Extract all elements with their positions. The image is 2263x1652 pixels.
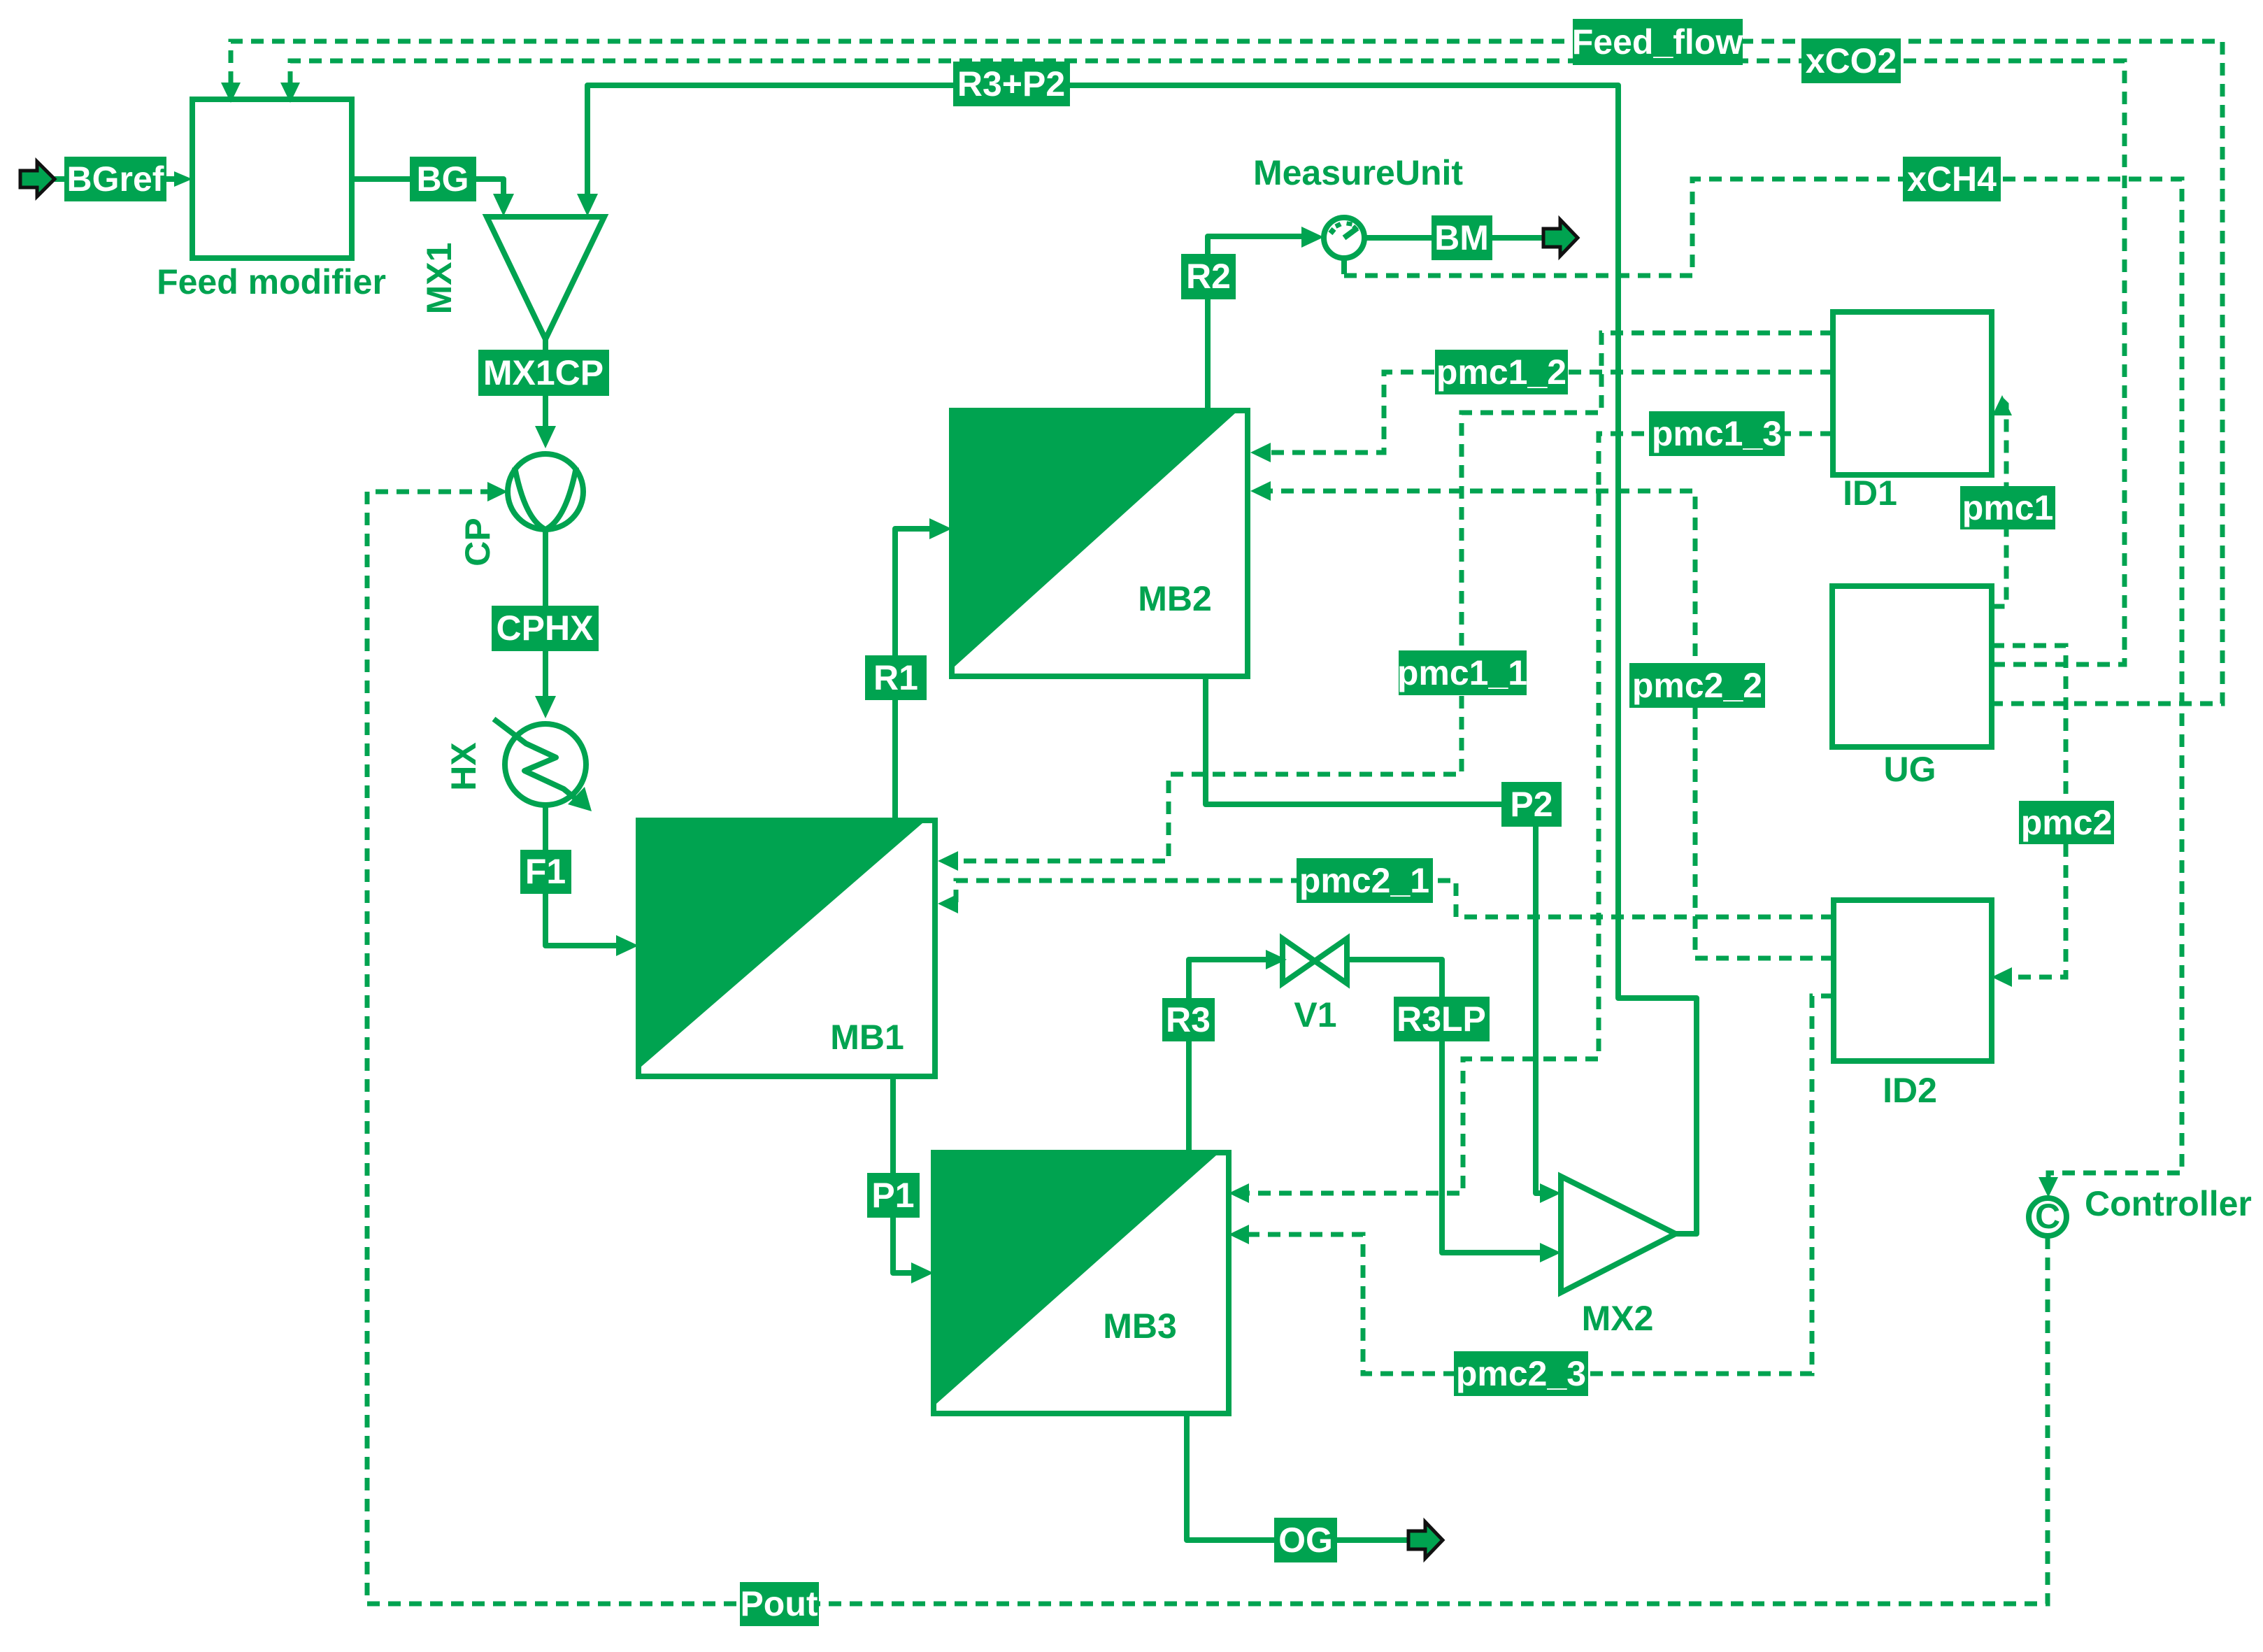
svg-text:BM: BM <box>1434 218 1489 257</box>
svg-text:R1: R1 <box>873 658 918 697</box>
svg-text:pmc1_2: pmc1_2 <box>1436 353 1566 392</box>
svg-text:xCO2: xCO2 <box>1806 41 1897 80</box>
svg-text:ID2: ID2 <box>1883 1071 1937 1110</box>
svg-text:V1: V1 <box>1294 995 1336 1034</box>
svg-text:F1: F1 <box>525 852 566 891</box>
svg-text:R3+P2: R3+P2 <box>957 64 1065 104</box>
svg-text:pmc1: pmc1 <box>1962 488 2054 527</box>
svg-text:MB1: MB1 <box>830 1018 904 1057</box>
svg-text:ID1: ID1 <box>1843 473 1897 513</box>
svg-text:BGref: BGref <box>67 159 164 199</box>
svg-text:pmc2_3: pmc2_3 <box>1456 1354 1586 1393</box>
svg-text:MB3: MB3 <box>1103 1306 1177 1346</box>
svg-text:pmc1_1: pmc1_1 <box>1397 653 1527 692</box>
svg-text:P2: P2 <box>1510 785 1552 824</box>
svg-text:HX: HX <box>444 742 483 790</box>
svg-text:P1: P1 <box>871 1176 914 1215</box>
svg-text:R3: R3 <box>1166 1000 1211 1039</box>
svg-text:MeasureUnit: MeasureUnit <box>1253 153 1463 192</box>
svg-text:Pout: Pout <box>740 1584 818 1623</box>
svg-text:Controller: Controller <box>2085 1184 2252 1223</box>
svg-text:CP: CP <box>458 518 497 566</box>
svg-text:pmc2: pmc2 <box>2021 803 2113 842</box>
svg-text:xCH4: xCH4 <box>1907 159 1997 199</box>
svg-text:MX1: MX1 <box>420 243 459 315</box>
svg-text:pmc2_2: pmc2_2 <box>1632 666 1762 705</box>
svg-text:pmc1_3: pmc1_3 <box>1652 414 1782 453</box>
svg-text:BG: BG <box>417 159 469 199</box>
svg-text:OG: OG <box>1278 1521 1333 1560</box>
svg-text:R2: R2 <box>1186 257 1231 296</box>
svg-text:R3LP: R3LP <box>1397 999 1486 1039</box>
svg-text:MB2: MB2 <box>1138 579 1212 618</box>
svg-text:C: C <box>2035 1197 2060 1236</box>
svg-text:MX2: MX2 <box>1582 1299 1654 1338</box>
svg-text:pmc2_1: pmc2_1 <box>1299 861 1429 900</box>
svg-text:CPHX: CPHX <box>497 608 594 648</box>
svg-text:Feed modifier: Feed modifier <box>157 262 386 301</box>
svg-text:MX1CP: MX1CP <box>483 353 604 392</box>
svg-text:UG: UG <box>1884 750 1936 789</box>
svg-text:Feed_flow: Feed_flow <box>1572 22 1743 62</box>
